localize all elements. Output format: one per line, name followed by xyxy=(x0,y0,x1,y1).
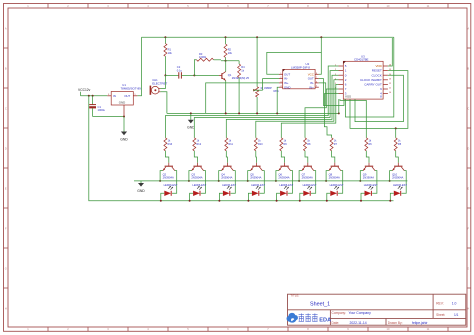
junction supply rail col7 xyxy=(326,200,328,202)
wire Q4 collector to LED xyxy=(231,171,236,194)
junction supply rail col3 xyxy=(218,200,220,202)
svg-text:Company:: Company: xyxy=(332,311,347,315)
wire LED anode to supply rail col5 xyxy=(277,193,281,200)
transistor Q6 2N3904A xyxy=(278,163,290,180)
wire LED anode to supply rail col3 xyxy=(219,193,223,200)
wire C2 to Q1 base xyxy=(194,74,219,76)
svg-text:Date:: Date: xyxy=(332,321,340,325)
wire R5 to Q10 base xyxy=(396,151,399,163)
wire R2-R4 node xyxy=(221,60,239,62)
microphone CH1 ELECTRET xyxy=(150,78,168,95)
resistor R8 1k xyxy=(304,138,312,151)
svg-text:GND: GND xyxy=(137,189,145,193)
svg-text:2N3904A: 2N3904A xyxy=(392,175,403,179)
wire C1 to U1 GND xyxy=(93,116,124,118)
svg-text:A: A xyxy=(467,27,469,31)
junction emitter col5 xyxy=(275,180,277,182)
transistor Q2 2N3904A xyxy=(163,163,175,180)
svg-text:10k: 10k xyxy=(228,51,233,55)
wire rail to U2 pin1 xyxy=(267,37,322,74)
net label VCC12v xyxy=(78,88,91,96)
wire mid ground rail xyxy=(167,112,339,114)
svg-text:LM358P-DIP 8: LM358P-DIP 8 xyxy=(291,65,310,69)
wire Q2 collector to LED xyxy=(172,171,177,194)
wire R6 to Q9 base xyxy=(366,151,369,163)
ground mid xyxy=(187,113,195,129)
junction U1 GND xyxy=(123,116,125,118)
junction supply rail col1 xyxy=(160,200,162,202)
counter U3 CD4017BE xyxy=(343,54,383,99)
wire Q8 emitter to gnd rail xyxy=(326,171,329,181)
wire Q6 collector to LED xyxy=(288,171,293,194)
resistor R3 1000k xyxy=(194,52,221,75)
junction R4 bottom xyxy=(238,112,240,114)
wire Q5 collector to LED xyxy=(260,171,265,194)
junction emitter col9 xyxy=(389,180,391,182)
svg-text:IN: IN xyxy=(113,94,116,98)
svg-text:2N3904A: 2N3904A xyxy=(221,175,232,179)
wire LED anode to supply rail col2 xyxy=(190,193,194,200)
svg-text:GND: GND xyxy=(120,137,128,141)
LED D4 LED06-EST xyxy=(251,183,265,196)
svg-text:Sheet_1: Sheet_1 xyxy=(310,302,330,308)
wire Q7 collector to LED xyxy=(311,171,316,194)
transistor Q5 2N3904A xyxy=(250,163,262,180)
wire U1 OUT up to 5V rail xyxy=(137,37,141,96)
svg-text:C1: C1 xyxy=(98,105,102,109)
wire R12 to Q3 base xyxy=(194,151,197,163)
wire LED gnd rail xyxy=(134,180,407,182)
svg-text:CD4017BE: CD4017BE xyxy=(354,58,369,62)
wire Q9 emitter to gnd rail xyxy=(360,171,363,181)
junction reset loop col9 xyxy=(395,127,397,129)
svg-text:VDD: VDD xyxy=(375,64,382,68)
junction emitter col8 xyxy=(359,180,361,182)
svg-text:2022-11-14: 2022-11-14 xyxy=(350,321,367,325)
wire bundle U3 outputs to columns xyxy=(165,66,366,138)
wire col9 feed xyxy=(395,128,397,137)
junction supply rail col4 xyxy=(247,200,249,202)
wire LED anode to supply rail col6 xyxy=(300,193,304,200)
wire Q6 emitter to gnd rail xyxy=(276,171,279,181)
junction C2-R3 xyxy=(193,74,195,76)
junction supply rail col8 xyxy=(360,200,362,202)
wire U3 VDD to rail xyxy=(388,38,392,66)
junction emitter col3 xyxy=(218,180,220,182)
svg-text:A: A xyxy=(5,27,7,31)
junction U2 gnd drop xyxy=(276,112,278,114)
wire U3 RESET loop xyxy=(350,71,408,129)
svg-text:CARRY OUT: CARRY OUT xyxy=(364,83,382,87)
resistor R2 10k xyxy=(224,37,233,61)
svg-text:R12: R12 xyxy=(197,143,202,146)
wire U2 GND drop xyxy=(277,87,279,113)
wire U2 IN- to trimmer wiper xyxy=(263,79,279,91)
title block frame xyxy=(288,294,466,325)
svg-text:2N3904A: 2N3904A xyxy=(191,175,202,179)
junction U2 VCC xyxy=(320,36,322,38)
svg-text:D: D xyxy=(467,147,469,151)
svg-text:H: H xyxy=(5,307,7,311)
resistor R10 1k xyxy=(254,138,263,151)
svg-text:TITLE:: TITLE: xyxy=(290,294,299,298)
svg-text:R1: R1 xyxy=(168,48,172,52)
transistor Q3 2N3904A xyxy=(191,163,203,180)
capacitor C2 0.1u xyxy=(165,65,194,79)
wire R1 bottom to mic node xyxy=(164,56,166,75)
junction Q1 emitter xyxy=(225,112,227,114)
svg-text:felipe.jahir: felipe.jahir xyxy=(412,321,428,325)
svg-text:VCC12v: VCC12v xyxy=(78,88,91,92)
junction supply rail col9 xyxy=(389,200,391,202)
LED D7 LED06-EST xyxy=(330,183,344,196)
junction supply rail col2 xyxy=(189,200,191,202)
svg-text:E: E xyxy=(467,187,469,191)
svg-text:C: C xyxy=(467,107,469,111)
junction R2 top xyxy=(225,36,227,38)
svg-text:1.0: 1.0 xyxy=(452,302,457,306)
wire mic plus to node xyxy=(160,75,165,88)
wire R9 to Q6 base xyxy=(281,151,284,163)
transistor Q1 2N3904 xyxy=(219,72,249,81)
wire supply drop to LED rail xyxy=(89,96,394,201)
resistor R1 10k xyxy=(164,37,173,56)
junction emitter col1 xyxy=(159,180,161,182)
svg-text:2N3904A: 2N3904A xyxy=(363,175,374,179)
wire U2 IN+ long xyxy=(206,83,279,114)
LED D9 LED06-EST xyxy=(393,183,407,196)
capacitor C1 1000u xyxy=(89,96,105,117)
wire R8 to Q7 base xyxy=(305,151,308,163)
svg-text:B: B xyxy=(467,67,469,71)
wire U1 GND to ground xyxy=(123,117,125,132)
junction U3 VSS xyxy=(338,112,340,114)
svg-text:R2: R2 xyxy=(228,48,232,52)
wire U3 CLOCK loop xyxy=(355,75,403,121)
resistor R13 1k xyxy=(164,138,173,151)
wire LED anode to supply rail col7 xyxy=(327,193,331,200)
wire LED anode to supply rail col1 xyxy=(161,193,165,200)
svg-text:VSS: VSS xyxy=(345,95,351,99)
junction mic node xyxy=(164,74,166,76)
LED D1 LED06-EST xyxy=(164,183,178,196)
svg-text:2N3904A: 2N3904A xyxy=(250,175,261,179)
resistor R9 1k xyxy=(280,138,288,151)
wire VCC input xyxy=(81,95,108,97)
U3 left pins xyxy=(335,64,351,99)
junction supply rail col5 xyxy=(276,200,278,202)
wire LED anode to supply rail col9 xyxy=(390,193,394,200)
junction R2 bottom xyxy=(225,60,227,62)
wire U2 OUT right xyxy=(319,79,344,106)
svg-text:EDA: EDA xyxy=(319,318,331,324)
wire Q4 emitter to gnd rail xyxy=(219,171,222,181)
svg-text:Drawn By:: Drawn By: xyxy=(388,321,403,325)
regulator U1 78M05 xyxy=(107,83,141,116)
LED D6 LED06-EST xyxy=(303,183,317,196)
junction emitter col4 xyxy=(247,180,249,182)
resistor R12 1k xyxy=(193,138,202,151)
svg-text:R11: R11 xyxy=(229,143,234,146)
wire R7 to Q8 base xyxy=(332,151,335,163)
trimmer RP1 R_3386P xyxy=(253,37,279,113)
resistor R5 1k xyxy=(394,138,402,151)
wire rail corner right of U3 xyxy=(345,37,393,117)
wire R13 to Q2 base xyxy=(165,151,168,163)
wire U2 IN- right xyxy=(319,83,326,106)
transistor Q4 2N3904A xyxy=(221,163,233,180)
svg-text:1000k: 1000k xyxy=(199,55,207,59)
svg-text:1/1: 1/1 xyxy=(454,313,459,317)
svg-text:10k: 10k xyxy=(168,51,173,55)
wire Q3 collector to LED xyxy=(201,171,206,194)
svg-text:G: G xyxy=(5,267,7,271)
svg-text:R10: R10 xyxy=(258,143,263,146)
junction supply rail col6 xyxy=(299,200,301,202)
svg-text:H: H xyxy=(467,307,469,311)
svg-text:0.1u: 0.1u xyxy=(177,68,183,72)
svg-text:D: D xyxy=(5,147,7,151)
svg-text:R13: R13 xyxy=(168,143,173,146)
svg-text:Your Company: Your Company xyxy=(349,311,372,315)
transistor Q8 2N3904A xyxy=(329,163,341,180)
junction emitter col7 xyxy=(325,180,327,182)
wire Q1 collector xyxy=(225,61,227,72)
junction VCC-railB xyxy=(88,95,90,97)
transistor Q10 2N3904A xyxy=(392,163,404,180)
ground LED rail xyxy=(137,181,145,193)
wire Q7 emitter to gnd rail xyxy=(299,171,302,181)
svg-text:2N3904A: 2N3904A xyxy=(302,175,313,179)
svg-text:REV:: REV: xyxy=(436,302,444,306)
U3 right pins xyxy=(360,64,392,98)
svg-text:1000u: 1000u xyxy=(98,108,106,112)
svg-text:GND: GND xyxy=(187,126,195,130)
resistor R11 1k xyxy=(225,138,234,151)
svg-text:OUT: OUT xyxy=(124,94,130,98)
svg-text:RESET: RESET xyxy=(372,69,382,73)
svg-text:C: C xyxy=(5,107,7,111)
wire Q8 collector to LED xyxy=(338,171,343,194)
resistor R7 1k xyxy=(330,138,338,151)
junction RP1 top xyxy=(256,36,258,38)
wire Q5 emitter to gnd rail xyxy=(248,171,251,181)
svg-text:78M05/SOT-89: 78M05/SOT-89 xyxy=(121,87,142,91)
transistor Q9 2N3904A xyxy=(363,163,375,180)
wire Q3 emitter to gnd rail xyxy=(189,171,192,181)
svg-text:Sheet:: Sheet: xyxy=(436,313,445,317)
ground under U1 xyxy=(120,132,128,142)
svg-text:IN+: IN+ xyxy=(309,85,314,89)
svg-text:RP1: RP1 xyxy=(274,89,280,93)
wire R11 to Q4 base xyxy=(226,151,227,163)
wire R10 to Q5 base xyxy=(255,151,258,163)
wire LED anode to supply rail col8 xyxy=(361,193,365,200)
junction emitter col6 xyxy=(298,180,300,182)
LED D2 LED06-EST xyxy=(192,183,206,196)
wire Q10 collector to LED xyxy=(402,171,407,194)
svg-text:2N3904(M) 25: 2N3904(M) 25 xyxy=(232,76,250,80)
junction VCC-C1 xyxy=(92,95,94,97)
wire U2 VCC to rail xyxy=(319,52,322,74)
junction RP1 bottom xyxy=(256,112,258,114)
svg-text:GND: GND xyxy=(119,100,125,104)
title block texts xyxy=(290,294,458,326)
op-amp U2 LM358P xyxy=(279,62,319,89)
junction emitter col2 xyxy=(188,180,190,182)
wire Q2 emitter to gnd rail xyxy=(160,171,163,181)
svg-text:GND: GND xyxy=(284,85,290,89)
svg-text:2N3904A: 2N3904A xyxy=(278,175,289,179)
LED D8 LED06-EST xyxy=(364,183,378,196)
wire U3 VSS down to gnd xyxy=(338,99,340,113)
wire 5V top rail xyxy=(142,36,394,38)
svg-text:2N3904A: 2N3904A xyxy=(163,175,174,179)
svg-text:2N3904A: 2N3904A xyxy=(329,175,340,179)
wire LED anode to supply rail col4 xyxy=(248,193,252,200)
svg-text:E: E xyxy=(5,187,7,191)
wire Q1 emitter to gnd rail xyxy=(225,81,227,114)
svg-text:G: G xyxy=(467,267,469,271)
wire Q10 emitter to gnd rail xyxy=(390,171,393,181)
wire Q9 collector to LED xyxy=(372,171,377,194)
svg-text:CLOCK: CLOCK xyxy=(371,73,381,77)
svg-text:CLOCK INHIBIT: CLOCK INHIBIT xyxy=(360,78,382,82)
junction R1 top xyxy=(164,36,166,38)
wire mic minus to gnd rail xyxy=(160,92,167,114)
transistor Q7 2N3904A xyxy=(302,163,314,180)
resistor R6 1k xyxy=(365,138,373,151)
svg-text:B: B xyxy=(5,67,7,71)
LED D5 LED06-EST xyxy=(279,183,293,196)
junction mid gnd stub xyxy=(190,112,192,114)
resistor R4 xyxy=(238,61,246,114)
EasyEDA logo xyxy=(287,313,332,324)
svg-text:R4: R4 xyxy=(241,65,245,69)
LED D3 LED06-EST xyxy=(222,183,236,196)
